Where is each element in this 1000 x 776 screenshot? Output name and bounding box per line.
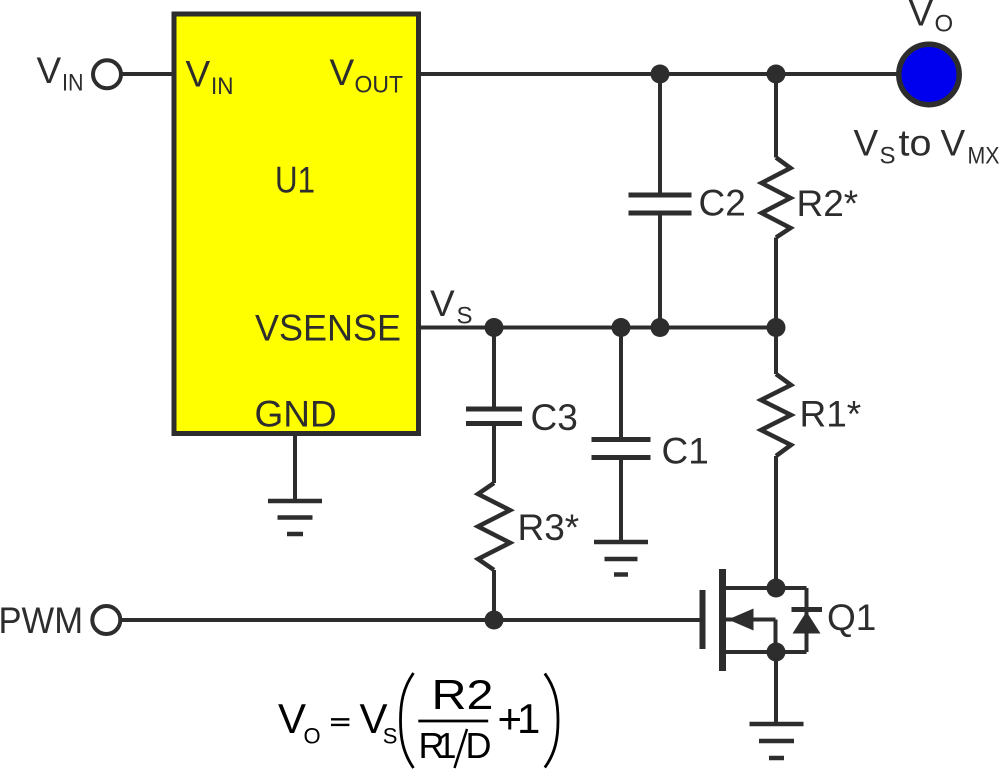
svg-text:V: V — [186, 54, 211, 95]
svg-text:V: V — [278, 695, 306, 742]
svg-text:D: D — [466, 725, 492, 766]
svg-text:V: V — [854, 123, 879, 164]
svg-text:S: S — [383, 724, 398, 749]
svg-text:V: V — [430, 283, 455, 324]
svg-text:Q1: Q1 — [827, 597, 876, 638]
svg-text:PWM: PWM — [0, 600, 83, 641]
svg-text:1: 1 — [517, 695, 540, 742]
svg-text:C3: C3 — [531, 397, 578, 438]
svg-text:C1: C1 — [662, 431, 709, 472]
svg-text:R2: R2 — [432, 671, 494, 718]
svg-text:R2*: R2* — [797, 183, 859, 224]
svg-text:S: S — [880, 143, 896, 170]
svg-text:U1: U1 — [275, 160, 315, 201]
svg-text:GND: GND — [255, 394, 337, 435]
svg-text:to: to — [899, 123, 932, 164]
svg-text:R1*: R1* — [800, 393, 862, 434]
svg-text:VSENSE: VSENSE — [255, 307, 401, 348]
svg-text:OUT: OUT — [355, 72, 404, 99]
svg-text:V: V — [37, 50, 62, 91]
svg-text:V: V — [909, 0, 934, 34]
svg-text:O: O — [304, 724, 321, 749]
svg-text:1: 1 — [437, 725, 457, 766]
svg-text:IN: IN — [62, 70, 84, 97]
svg-text:V: V — [941, 123, 966, 164]
svg-text:IN: IN — [211, 73, 234, 100]
svg-text:V: V — [330, 52, 355, 93]
svg-text:S: S — [457, 303, 473, 330]
svg-text:O: O — [935, 11, 954, 38]
svg-text:R3*: R3* — [518, 507, 580, 548]
svg-text:MX: MX — [968, 143, 1000, 170]
svg-text:C2: C2 — [699, 183, 746, 224]
